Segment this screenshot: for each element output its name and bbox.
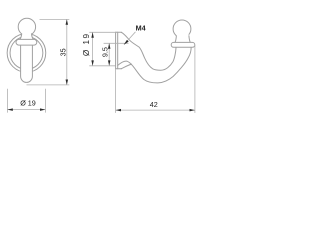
dim 9.5: top extension line [104,42,129,44]
arrow d19 side down [91,60,94,65]
front view: ball [18,18,35,35]
side view: hook inner (upper) profile [121,32,176,70]
dim d19 side: top extension line [89,31,117,33]
dim d19 front: right extension line [44,89,46,113]
M4 leader line [124,32,135,45]
side view: neck between ball and collar [175,35,190,43]
side view: rosette bottom edge [116,68,122,70]
dim 35: top extension line [40,18,70,20]
arrow 42 left [116,109,121,112]
side view: hook outer (lower) profile [118,48,191,83]
side view: rosette bottom corner fillet [121,64,131,69]
dim 35: bottom extension line [27,84,70,86]
arrow 35 up [66,19,69,24]
dim 42: right extension line [194,45,196,113]
arrow d19 front left [7,108,12,111]
arrow 9.5 up [108,43,111,48]
arrow M4 leader [124,40,129,45]
side view: wall line [115,32,117,69]
side view: rosette back face [117,32,119,69]
dim 35: dimension line [66,19,68,85]
side view: collar [171,42,195,47]
dim side shared bottom extension line [89,65,115,67]
dim d19 side: dimension line [92,32,94,66]
dim 42: left extension line [115,69,117,113]
svg-text:35: 35 [58,48,67,56]
arrow d19 front right [40,108,45,111]
front view: shaft with round bottom [21,45,33,82]
side view: ball [173,20,191,38]
svg-text:9.5: 9.5 [101,47,110,57]
svg-text:42: 42 [150,100,158,109]
arrow 35 down [66,80,69,85]
dim d19 front: dimension line [7,109,45,111]
svg-text:Ø 19: Ø 19 [20,98,36,107]
svg-text:M4: M4 [136,24,146,33]
svg-text:Ø 19: Ø 19 [82,32,91,56]
side view: rosette top edge [116,31,122,33]
dim 42: dimension line [116,109,195,111]
arrow 9.5 down [108,60,111,65]
dim d19 front: left extension line [6,89,8,113]
front view: rosette outer circle [7,34,46,73]
front view: rosette inner circle [10,37,43,70]
front view: collar [16,39,37,45]
front view: neck between ball and collar [20,33,34,40]
arrow 42 right [190,109,195,112]
dim 9.5: dimension line [108,43,110,66]
arrow d19 side up [91,32,94,37]
